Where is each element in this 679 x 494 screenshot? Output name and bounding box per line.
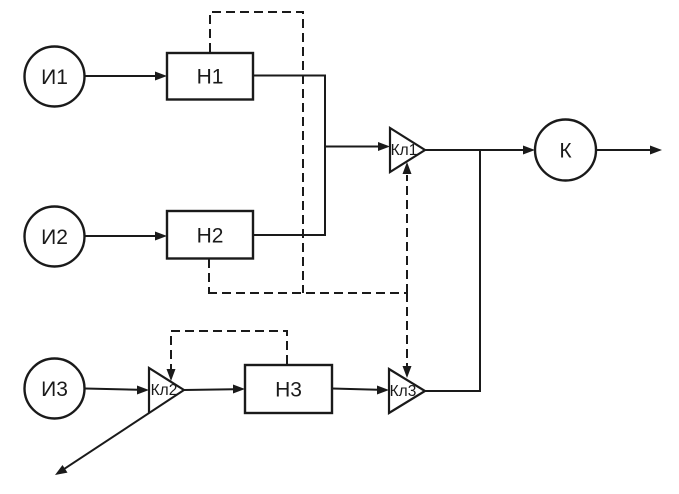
wire Кл1 output to К with arrow <box>425 146 535 155</box>
wire bus vertical segment <box>324 75 326 237</box>
wire bus to Кл1 with arrow <box>324 142 390 151</box>
svg-text:И2: И2 <box>41 226 68 249</box>
svg-text:Н2: Н2 <box>197 225 224 248</box>
svg-text:И1: И1 <box>41 66 68 89</box>
svg-text:Кл1: Кл1 <box>391 142 418 159</box>
block Н2 <box>167 211 253 259</box>
source circle И1 <box>25 47 85 107</box>
block Н1 <box>167 53 253 100</box>
wire И2 to Н2 with arrow <box>85 232 167 241</box>
wire И1 to Н1 with arrow <box>85 72 167 81</box>
dashed feedback Н3 loop to Кл2 with arrow <box>167 331 288 381</box>
wire Н2 output to bus <box>253 234 325 236</box>
output circle К <box>535 120 596 181</box>
wire Кл2 output to Н3 with arrow <box>184 385 245 394</box>
source circle И2 <box>25 207 85 267</box>
dashed line from Н2 bottom down <box>208 259 210 293</box>
switch Кл1 <box>390 128 425 172</box>
switch Кл3 <box>389 369 425 413</box>
source circle И3 <box>25 359 85 419</box>
wire Кл3 output to junction <box>425 390 481 392</box>
svg-text:Н1: Н1 <box>197 66 224 89</box>
wire И3 to Кл2 with arrow <box>85 386 149 395</box>
dashed control line down to Кл3 with arrow <box>403 293 412 378</box>
wire junction vertical from Кл1 line down to Кл3 output <box>479 149 481 391</box>
svg-text:И3: И3 <box>41 378 68 401</box>
wire Н1 output to bus <box>253 75 325 77</box>
wire К output arrow <box>596 146 662 155</box>
svg-text:Кл3: Кл3 <box>390 383 417 400</box>
dashed horizontal line to control node <box>208 292 407 294</box>
dashed feedback Н1 loop: top of Н1 up, right, down to dashed cross line <box>210 12 303 293</box>
dashed control line up to Кл1 with arrow <box>403 162 412 293</box>
wire diagonal branch from Кл2 apex down-left with arrow <box>55 390 184 475</box>
block Н3 <box>245 365 332 413</box>
wire Н3 output to Кл3 with arrow <box>332 386 389 395</box>
switch Кл2 <box>149 368 184 413</box>
svg-text:К: К <box>559 140 572 163</box>
svg-text:Н3: Н3 <box>275 379 302 402</box>
